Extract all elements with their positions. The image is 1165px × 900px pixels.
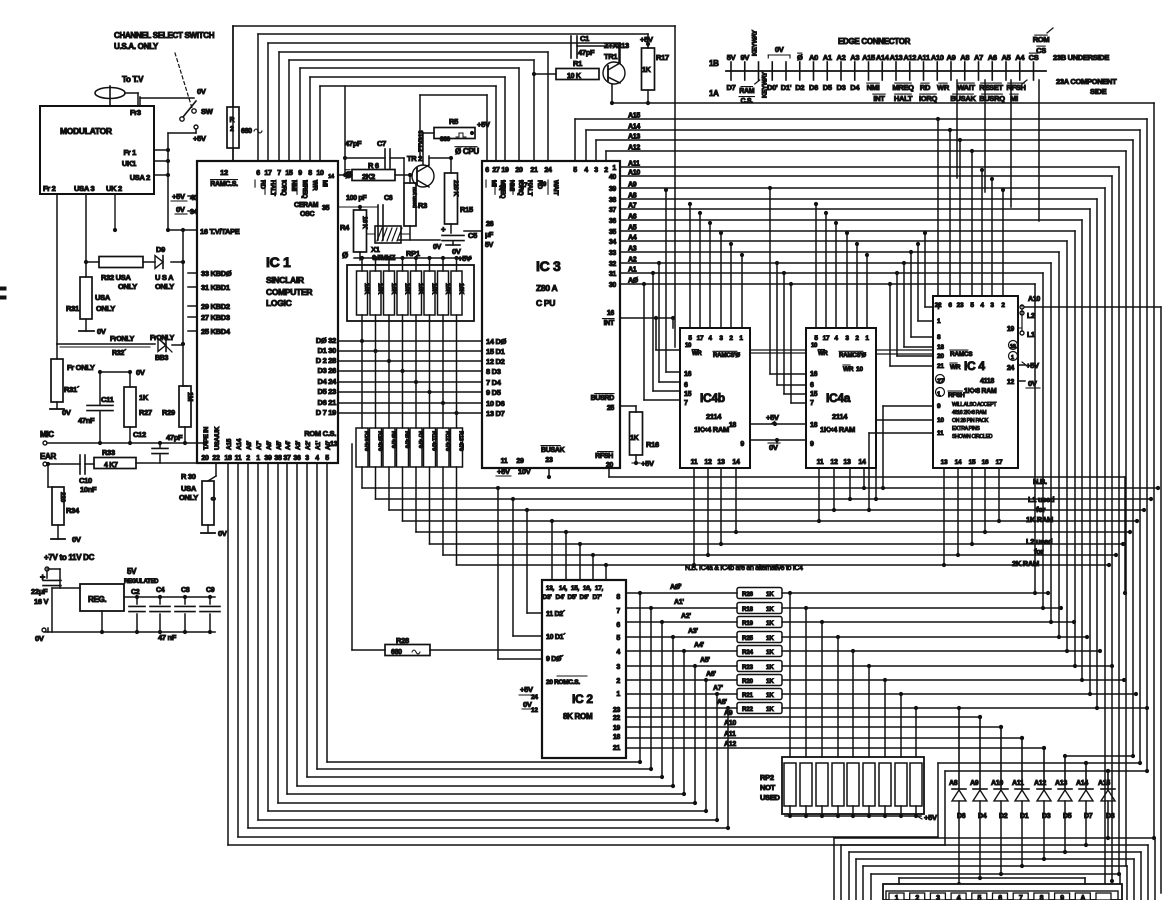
svg-text:USA 3: USA 3 [74, 184, 94, 193]
svg-text:+: + [441, 225, 446, 234]
svg-text:NMI: NMI [867, 83, 880, 92]
svg-text:RFSH: RFSH [595, 453, 613, 460]
svg-text:16,: 16, [583, 585, 592, 592]
svg-text:10: 10 [856, 366, 863, 373]
svg-text:10 D6: 10 D6 [486, 399, 505, 408]
svg-text:19: 19 [540, 182, 547, 188]
svg-text:A0: A0 [809, 53, 818, 62]
svg-text:Fr3: Fr3 [130, 108, 141, 117]
svg-text:EAR: EAR [40, 452, 57, 461]
svg-text:+7V to 11V DC: +7V to 11V DC [44, 553, 95, 562]
svg-text:D7': D7' [593, 594, 603, 601]
svg-text:CHANNEL SELECT SWITCH: CHANNEL SELECT SWITCH [114, 31, 215, 40]
svg-text:D5: D5 [823, 83, 832, 92]
svg-text:A1': A1' [674, 599, 684, 606]
svg-text:RD: RD [920, 83, 931, 92]
svg-text:R28: R28 [396, 636, 409, 645]
svg-text:A6: A6 [628, 214, 637, 221]
svg-text:37: 37 [609, 207, 617, 214]
svg-text:12: 12 [830, 459, 838, 466]
svg-text:SINCLAIR: SINCLAIR [266, 275, 304, 285]
svg-text:1: 1 [612, 165, 616, 172]
svg-text:R7 470: R7 470 [417, 431, 423, 448]
svg-text:A13: A13 [1055, 780, 1067, 787]
svg-text:A10: A10 [931, 53, 944, 62]
svg-text:6.5MHZ: 6.5MHZ [372, 255, 396, 262]
svg-text:6: 6 [485, 167, 489, 174]
svg-text:A14: A14 [876, 53, 890, 62]
svg-text:9: 9 [810, 441, 814, 448]
svg-text:R10 470: R10 470 [377, 431, 383, 451]
svg-text:15,: 15, [571, 585, 580, 592]
svg-text:10K: 10K [458, 283, 465, 295]
svg-text:BUSRD: BUSRD [591, 395, 615, 402]
svg-text:A1': A1' [315, 440, 322, 450]
svg-text:11: 11 [937, 430, 944, 437]
svg-text:A1: A1 [823, 53, 832, 62]
svg-text:A9: A9 [724, 710, 733, 717]
svg-text:A5: A5 [1002, 53, 1011, 62]
svg-text:220 K: 220 K [452, 180, 459, 196]
svg-text:0V: 0V [72, 535, 81, 544]
svg-text:C9: C9 [206, 587, 215, 594]
svg-text:22: 22 [499, 186, 506, 192]
svg-text:6: 6 [998, 895, 1002, 900]
svg-text:6: 6 [256, 170, 260, 177]
svg-text:R25: R25 [742, 635, 753, 642]
svg-text:WR: WR [818, 351, 828, 357]
svg-text:11: 11 [817, 459, 824, 466]
svg-text:R17: R17 [656, 53, 669, 62]
svg-text:A9: A9 [628, 182, 637, 189]
svg-text:R23: R23 [742, 664, 753, 671]
svg-text:23: 23 [957, 302, 964, 309]
svg-text:25 KBD4: 25 KBD4 [201, 327, 231, 336]
svg-text:for: for [1034, 547, 1043, 556]
svg-text:11: 11 [235, 455, 242, 462]
svg-text:A10: A10 [1028, 296, 1040, 303]
svg-text:A15: A15 [1098, 780, 1110, 787]
svg-text:4118: 4118 [980, 378, 994, 385]
svg-text:1K×4 RAM: 1K×4 RAM [820, 425, 855, 434]
svg-text:36: 36 [293, 455, 301, 462]
svg-text:+5V: +5V [766, 413, 779, 422]
svg-text:A2: A2 [628, 257, 637, 264]
svg-text:A14: A14 [1076, 780, 1088, 787]
svg-text:4: 4 [616, 649, 620, 656]
svg-text:A14: A14 [628, 124, 640, 131]
svg-text:A8: A8 [628, 193, 637, 200]
svg-text:Ø: Ø [342, 251, 348, 260]
svg-text:7: 7 [684, 400, 688, 407]
svg-text:D5 23: D5 23 [317, 387, 336, 396]
svg-text:+5V: +5V [1026, 361, 1039, 370]
svg-text:A5': A5' [700, 657, 710, 664]
svg-text:N.B. IC4a & IC4b are an altern: N.B. IC4a & IC4b are an alternative to I… [685, 565, 803, 572]
svg-text:47pF: 47pF [345, 139, 362, 148]
svg-text:RAMC.S.: RAMC.S. [210, 181, 238, 188]
svg-text:7: 7 [277, 170, 281, 177]
svg-text:35: 35 [322, 205, 330, 212]
svg-text:1K: 1K [766, 678, 774, 685]
svg-text:USA: USA [95, 293, 111, 302]
svg-text:14: 14 [955, 459, 962, 466]
svg-text:R3: R3 [418, 201, 427, 210]
svg-text:10: 10 [685, 343, 692, 349]
svg-text:15: 15 [810, 391, 818, 398]
svg-text:33: 33 [609, 250, 617, 257]
svg-text:0V: 0V [775, 45, 784, 54]
svg-text:A7: A7 [974, 53, 983, 62]
svg-text:R29: R29 [162, 408, 175, 417]
svg-text:MI: MI [321, 180, 328, 187]
svg-text:10nF: 10nF [80, 485, 97, 494]
svg-text:A: A [1080, 895, 1085, 900]
svg-text:A11: A11 [917, 53, 930, 62]
svg-text:7: 7 [1019, 895, 1023, 900]
svg-text:47pF: 47pF [166, 433, 183, 442]
svg-text:BUSRQ: BUSRQ [979, 94, 1005, 103]
svg-text:5: 5 [573, 167, 577, 174]
svg-text:WR: WR [950, 364, 961, 371]
svg-text:100 pF: 100 pF [346, 195, 367, 202]
svg-text:11: 11 [691, 459, 698, 466]
svg-text:33 KBDØ: 33 KBDØ [201, 269, 232, 278]
svg-text:34: 34 [190, 209, 198, 216]
svg-text:16 K: 16 K [361, 216, 368, 229]
svg-text:7 D4: 7 D4 [486, 378, 502, 387]
svg-text:15 D1: 15 D1 [486, 347, 505, 356]
svg-text:21: 21 [530, 167, 538, 174]
svg-text:2K RAM: 2K RAM [1012, 559, 1039, 568]
svg-text:A15: A15 [862, 53, 875, 62]
svg-text:47nF: 47nF [78, 416, 95, 425]
svg-text:C1: C1 [580, 34, 589, 43]
svg-text:C7: C7 [377, 139, 386, 148]
svg-text:C6: C6 [384, 195, 393, 202]
svg-text:680: 680 [391, 649, 402, 656]
svg-text:0V: 0V [452, 247, 461, 256]
svg-text:31: 31 [609, 271, 617, 278]
svg-text:SIDE: SIDE [1090, 87, 1107, 96]
svg-text:R5: R5 [449, 117, 458, 126]
svg-text:A4': A4' [694, 642, 704, 649]
svg-text:12: 12 [531, 707, 538, 714]
svg-text:24: 24 [1007, 365, 1015, 372]
svg-text:8K ROM: 8K ROM [563, 712, 593, 721]
svg-text:A12: A12 [628, 145, 640, 152]
svg-text:0V: 0V [769, 443, 778, 452]
svg-text:Fr 2: Fr 2 [43, 184, 56, 193]
svg-text:15: 15 [684, 391, 692, 398]
svg-text:2: 2 [616, 678, 620, 685]
svg-text:16: 16 [607, 310, 615, 317]
svg-text:R15: R15 [460, 205, 473, 214]
svg-text:13,: 13, [546, 585, 555, 592]
svg-text:7: 7 [616, 608, 620, 615]
svg-text:X1: X1 [371, 245, 380, 254]
svg-text:ROM C.S.: ROM C.S. [304, 429, 336, 438]
svg-text:1K: 1K [766, 692, 774, 699]
svg-text:0V: 0V [136, 368, 145, 377]
svg-text:1: 1 [895, 895, 899, 900]
svg-text:A4: A4 [1015, 53, 1025, 62]
svg-text:330: 330 [440, 136, 451, 143]
svg-text:14 DØ: 14 DØ [486, 337, 507, 346]
svg-text:40: 40 [609, 174, 617, 181]
svg-text:C12: C12 [133, 430, 146, 439]
svg-text:SW: SW [201, 107, 214, 116]
svg-text:L2 used: L2 used [1026, 537, 1053, 546]
svg-text:L1: L1 [1027, 332, 1035, 339]
svg-text:R9 470: R9 470 [390, 431, 396, 448]
svg-text:23: 23 [545, 457, 553, 464]
svg-text:MI: MI [490, 180, 497, 187]
svg-text:13: 13 [843, 459, 851, 466]
svg-text:R14 470: R14 470 [363, 431, 369, 451]
svg-text:0V: 0V [62, 408, 71, 417]
svg-text:C10: C10 [79, 476, 92, 485]
svg-text:R31´: R31´ [64, 385, 80, 394]
svg-text:17,: 17, [595, 585, 604, 592]
svg-text:1K RAM: 1K RAM [1026, 515, 1053, 524]
svg-text:L1 used: L1 used [1028, 495, 1055, 504]
svg-text:IC 1: IC 1 [266, 254, 291, 270]
svg-text:C4: C4 [156, 587, 165, 594]
svg-text:A10: A10 [724, 720, 736, 727]
svg-text:0V: 0V [218, 529, 227, 538]
svg-text:RAMCS'Ø: RAMCS'Ø [713, 352, 740, 359]
svg-text:D6: D6 [809, 83, 818, 92]
svg-text:R4: R4 [340, 223, 350, 232]
svg-text:D4': D4' [556, 594, 566, 601]
svg-text:A4': A4' [285, 440, 292, 450]
svg-text:R26: R26 [742, 591, 753, 598]
svg-text:TAPE IN: TAPE IN [203, 426, 210, 450]
svg-text:NMI: NMI [508, 180, 515, 192]
svg-text:20: 20 [937, 353, 944, 360]
svg-text:20: 20 [201, 455, 209, 462]
svg-text:DØ 32: DØ 32 [316, 336, 336, 345]
svg-text:5: 5 [978, 895, 982, 900]
svg-text:38: 38 [274, 455, 282, 462]
svg-text:39: 39 [264, 455, 272, 462]
svg-text:+5V: +5V [924, 813, 937, 822]
svg-text:not used: not used [411, 187, 417, 208]
svg-text:17: 17 [521, 183, 528, 189]
svg-text:D 7 19: D 7 19 [316, 408, 336, 417]
svg-text:1K: 1K [630, 435, 639, 442]
svg-text:IC4a: IC4a [826, 391, 851, 405]
svg-text:IC 4: IC 4 [964, 359, 985, 373]
svg-text:A9: A9 [970, 780, 979, 787]
svg-text:18: 18 [810, 422, 818, 429]
svg-text:22: 22 [613, 715, 621, 722]
svg-text:17: 17 [264, 170, 272, 177]
svg-text:9: 9 [740, 441, 744, 448]
svg-text:680: 680 [241, 128, 252, 135]
svg-text:NOT: NOT [760, 783, 776, 792]
svg-text:2114: 2114 [706, 412, 722, 421]
svg-text:24: 24 [544, 167, 552, 174]
svg-text:R24: R24 [742, 649, 753, 656]
svg-text:WR: WR [692, 351, 702, 357]
svg-text:35: 35 [609, 229, 617, 236]
svg-text:1K×4 RAM: 1K×4 RAM [694, 425, 729, 434]
svg-text:A10: A10 [628, 170, 640, 177]
svg-text:R32´: R32´ [112, 350, 127, 357]
svg-text:FrONLY: FrONLY [150, 335, 175, 342]
svg-text:A6': A6' [266, 440, 273, 450]
svg-text:ONLY: ONLY [96, 304, 115, 313]
svg-text:9: 9 [1060, 895, 1064, 900]
svg-text:MREQ: MREQ [892, 83, 914, 92]
svg-text:WR: WR [843, 366, 854, 373]
svg-text:D4 24: D4 24 [317, 377, 337, 386]
svg-text:32: 32 [609, 261, 617, 268]
svg-text:D9: D9 [156, 245, 165, 254]
svg-text:18: 18 [613, 734, 621, 741]
svg-text:+5V: +5V [477, 120, 490, 129]
svg-text:14: 14 [858, 459, 866, 466]
svg-text:10K: 10K [444, 283, 451, 295]
svg-text:16: 16 [684, 371, 692, 378]
svg-text:A13: A13 [890, 53, 903, 62]
svg-text:1K: 1K [766, 620, 774, 627]
svg-text:27: 27 [492, 167, 500, 174]
svg-text:1K: 1K [642, 67, 651, 74]
svg-text:INT: INT [604, 320, 615, 327]
svg-text:17: 17 [996, 459, 1003, 466]
svg-text:IC 2: IC 2 [572, 692, 593, 706]
svg-text:27 KBD3: 27 KBD3 [201, 313, 230, 322]
svg-text:31 KBD1: 31 KBD1 [201, 283, 230, 292]
svg-text:Z80 A: Z80 A [536, 283, 557, 293]
svg-text:38: 38 [609, 197, 617, 204]
svg-text:R21: R21 [742, 692, 753, 699]
svg-text:6: 6 [616, 622, 620, 629]
svg-text:for: for [1036, 505, 1045, 514]
svg-text:USA: USA [181, 484, 197, 493]
svg-text:39: 39 [609, 186, 617, 193]
svg-text:13: 13 [941, 459, 948, 466]
svg-text:D2: D2 [795, 83, 804, 92]
svg-text:20 ROMC.S.: 20 ROMC.S. [546, 679, 580, 686]
svg-text:A12: A12 [903, 53, 916, 62]
svg-text:C.S.: C.S. [741, 98, 754, 105]
svg-text:A14: A14 [236, 438, 243, 450]
svg-text:21: 21 [613, 745, 621, 752]
svg-text:A2': A2' [305, 440, 312, 450]
svg-text:23A COMPONENT: 23A COMPONENT [1056, 77, 1117, 86]
svg-text:REGULATED: REGULATED [124, 579, 159, 585]
svg-text:FrONLY: FrONLY [110, 336, 135, 343]
svg-text:NMI: NMI [290, 180, 297, 192]
svg-text:D3: D3 [837, 83, 846, 92]
svg-text:A0': A0' [325, 440, 332, 450]
svg-text:R13 470: R13 470 [458, 431, 464, 451]
svg-text:10: 10 [937, 417, 944, 424]
svg-text:4: 4 [957, 895, 961, 900]
svg-text:EXTRA PINS: EXTRA PINS [952, 426, 980, 432]
svg-text:R32 USA: R32 USA [101, 273, 131, 282]
svg-text:UK 2: UK 2 [106, 184, 122, 193]
svg-text:R22: R22 [742, 706, 753, 713]
svg-text:18: 18 [224, 455, 232, 462]
svg-text:A5: A5 [628, 225, 637, 232]
svg-text:8: 8 [308, 170, 312, 177]
svg-text:5: 5 [616, 635, 620, 642]
svg-text:2: 2 [246, 455, 250, 462]
svg-text:LOGIC: LOGIC [266, 298, 292, 308]
svg-text:A15: A15 [226, 438, 233, 450]
svg-text:+5V: +5V [172, 192, 185, 201]
svg-text:1: 1 [256, 455, 260, 462]
svg-text:ON 28 PIN PACK: ON 28 PIN PACK [952, 418, 989, 424]
svg-text:21: 21 [937, 363, 944, 370]
svg-text:ROM: ROM [1033, 35, 1050, 44]
svg-text:36: 36 [609, 218, 617, 225]
svg-text:C PU: C PU [536, 298, 555, 308]
svg-text:17: 17 [823, 335, 830, 342]
svg-text:A6': A6' [706, 671, 716, 678]
svg-text:R18: R18 [742, 606, 753, 613]
svg-text:1: 1 [1011, 355, 1014, 361]
svg-text:19: 19 [1007, 326, 1015, 333]
svg-text:15: 15 [285, 170, 293, 177]
svg-text:9V: 9V [740, 53, 749, 62]
svg-text:A8: A8 [960, 53, 969, 62]
svg-text:11: 11 [501, 458, 508, 465]
svg-text:A3: A3 [850, 53, 859, 62]
svg-text:16: 16 [1010, 344, 1016, 350]
svg-text:30: 30 [609, 282, 617, 289]
svg-text:10K: 10K [377, 283, 384, 295]
svg-text:R8 470: R8 470 [404, 431, 410, 448]
svg-text:RP1: RP1 [406, 249, 420, 258]
svg-text:RAMCS'Ø: RAMCS'Ø [839, 352, 866, 359]
svg-text:12 D2: 12 D2 [486, 357, 505, 366]
svg-text:RFSH: RFSH [948, 392, 965, 399]
svg-text:37: 37 [283, 455, 291, 462]
svg-text:R20: R20 [742, 678, 753, 685]
svg-text:0V: 0V [1028, 379, 1037, 388]
svg-text:14,: 14, [559, 585, 568, 592]
svg-text:4: 4 [315, 455, 319, 462]
svg-text:47 nF: 47 nF [158, 633, 177, 642]
svg-text:D4: D4 [850, 83, 860, 92]
svg-text:C11: C11 [101, 395, 114, 404]
svg-text:11 D2´: 11 D2´ [546, 611, 566, 618]
svg-text:9 D5: 9 D5 [486, 388, 501, 397]
svg-text:1K: 1K [766, 591, 774, 598]
svg-text:10 K: 10 K [567, 73, 581, 80]
svg-text:0V: 0V [97, 327, 106, 336]
svg-text:18: 18 [937, 344, 944, 351]
svg-text:N.B.: N.B. [1033, 477, 1047, 486]
svg-text:RP2: RP2 [760, 773, 774, 782]
svg-text:A12: A12 [1034, 780, 1046, 787]
svg-text:0V: 0V [176, 205, 185, 214]
svg-text:12: 12 [220, 168, 228, 177]
svg-text:A11: A11 [628, 161, 640, 168]
svg-text:RAM: RAM [739, 88, 755, 95]
svg-text:10K: 10K [363, 283, 370, 295]
svg-text:C2: C2 [131, 589, 140, 596]
svg-text:29 KBD2: 29 KBD2 [201, 302, 230, 311]
svg-text:D7: D7 [727, 83, 736, 92]
svg-text:10K: 10K [390, 283, 397, 295]
